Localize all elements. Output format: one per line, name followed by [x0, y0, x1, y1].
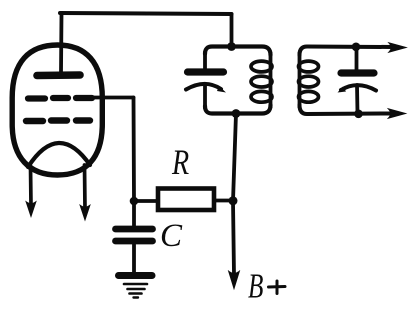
wire plate lead — [59, 14, 63, 73]
tank top wire — [205, 47, 271, 56]
node output top junction — [352, 43, 361, 52]
svg-text:B: B — [248, 267, 263, 306]
inductor L2 vertical — [298, 53, 302, 107]
svg-text:R: R — [171, 142, 189, 182]
wire resistor to bus — [214, 199, 233, 203]
output arrow bottom — [390, 110, 405, 118]
tube V1 plate (anode) bar — [37, 71, 80, 79]
label plus sign — [269, 281, 286, 294]
wire top junction to C2 — [355, 47, 359, 70]
tank bottom wire — [205, 105, 271, 114]
inductor L1 vertical — [269, 53, 273, 107]
wire C1 to tank bottom — [203, 85, 207, 108]
wire tank left lead to C1 — [203, 52, 207, 69]
capacitor C plate top — [116, 226, 153, 233]
wire grid drop to junction — [132, 98, 136, 202]
tube V1 screen grid (dashed) — [26, 117, 90, 124]
capacitor C plate bottom — [116, 238, 153, 245]
variable capacitor C2 arrow tip — [338, 87, 347, 93]
wire capacitor C to ground — [132, 244, 136, 273]
filament lead left — [29, 166, 33, 206]
wire C2 to bottom junction — [355, 85, 359, 114]
wire junction down to capacitor C — [132, 201, 136, 227]
ground — [119, 276, 153, 298]
resistor R — [158, 189, 214, 211]
tube V1 control grid (dashed) — [28, 95, 92, 102]
node tank top junction — [227, 42, 236, 51]
filament arrow right — [81, 206, 90, 219]
output bottom wire — [300, 105, 392, 114]
node tank bottom junction — [232, 109, 241, 118]
wire tank bottom to B+ — [233, 114, 236, 276]
tube V1 envelope — [12, 45, 102, 175]
output top wire — [300, 47, 393, 56]
filament lead right — [83, 165, 87, 210]
wire grid exit — [88, 96, 134, 100]
inductor L2 loops — [299, 61, 319, 102]
node resistor/bus junction — [229, 196, 238, 205]
filament arrow left — [27, 203, 36, 216]
variable capacitor C1 curved plate — [186, 84, 221, 90]
node grid/R/C junction — [130, 197, 139, 206]
wire top bus horizontal — [60, 13, 232, 14]
variable capacitor C2 curved plate — [341, 85, 376, 90]
variable capacitor C1 arrow tip — [217, 86, 226, 93]
variable capacitor C1 plate — [188, 68, 224, 75]
wire top bus drop to tank — [230, 14, 234, 46]
tube V1 cathode dome — [28, 143, 90, 167]
svg-text:C: C — [160, 218, 183, 254]
inductor L1 loops — [251, 61, 272, 102]
variable capacitor C2 plate — [341, 69, 374, 76]
node output bottom junction — [354, 110, 363, 119]
wire junction to resistor — [134, 199, 157, 203]
B+ arrow — [229, 272, 239, 288]
output arrow top — [390, 44, 405, 52]
